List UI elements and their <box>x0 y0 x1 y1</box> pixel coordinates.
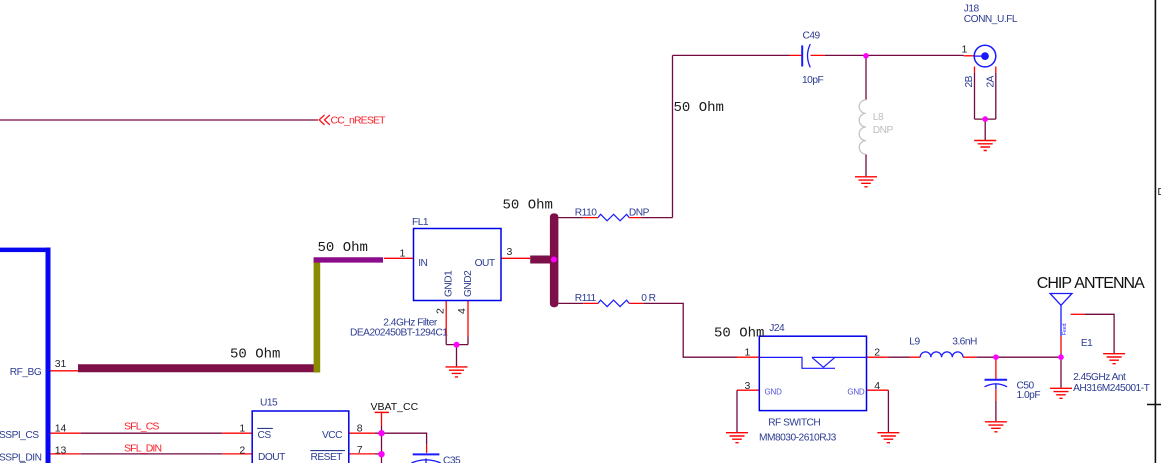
svg-text:IN: IN <box>418 258 427 269</box>
svg-text:50 Ohm: 50 Ohm <box>230 347 280 363</box>
svg-text:13: 13 <box>55 445 67 457</box>
svg-text:R110: R110 <box>575 208 597 219</box>
svg-text:GND: GND <box>765 387 783 396</box>
svg-text:CC_nRESET: CC_nRESET <box>331 115 387 127</box>
svg-text:1: 1 <box>962 44 968 56</box>
svg-text:SFL_DIN: SFL_DIN <box>124 443 161 455</box>
svg-text:2.45GHz Ant: 2.45GHz Ant <box>1073 372 1126 383</box>
svg-text:2A: 2A <box>986 75 997 87</box>
svg-text:1: 1 <box>400 247 406 259</box>
svg-text:CONN_U.FL: CONN_U.FL <box>964 14 1018 25</box>
svg-text:MM8030-2610RJ3: MM8030-2610RJ3 <box>759 433 837 444</box>
svg-text:C35: C35 <box>443 456 461 463</box>
svg-text:SSPI_DIN: SSPI_DIN <box>0 452 42 463</box>
svg-text:SSPI_CS: SSPI_CS <box>0 430 39 441</box>
svg-text:FL1: FL1 <box>412 217 429 228</box>
svg-text:GND2: GND2 <box>463 270 474 297</box>
svg-text:50 Ohm: 50 Ohm <box>318 240 368 256</box>
svg-text:2B: 2B <box>964 75 975 87</box>
svg-text:SFL_CS: SFL_CS <box>124 420 159 432</box>
svg-text:7: 7 <box>357 444 363 456</box>
svg-text:DNP: DNP <box>873 125 894 136</box>
svg-text:0 R: 0 R <box>641 293 655 304</box>
svg-text:4: 4 <box>874 380 880 392</box>
svg-text:14: 14 <box>55 422 67 434</box>
svg-text:L8: L8 <box>873 112 884 123</box>
svg-text:2: 2 <box>435 308 447 314</box>
svg-text:C49: C49 <box>803 31 821 42</box>
svg-text:2: 2 <box>874 346 880 358</box>
svg-text:J18: J18 <box>964 4 980 15</box>
svg-text:DOUT: DOUT <box>258 452 285 463</box>
svg-text:Feed: Feed <box>1062 323 1068 335</box>
svg-text:L9: L9 <box>909 337 920 348</box>
svg-text:GND: GND <box>847 387 865 396</box>
svg-text:GND1: GND1 <box>444 270 455 297</box>
svg-text:DNP: DNP <box>629 208 650 219</box>
svg-text:3.6nH: 3.6nH <box>952 337 977 348</box>
svg-text:RF_BG: RF_BG <box>10 367 42 378</box>
svg-text:50 Ohm: 50 Ohm <box>714 325 764 341</box>
svg-text:1: 1 <box>239 422 245 434</box>
svg-text:3: 3 <box>745 380 751 392</box>
svg-text:8: 8 <box>357 422 363 434</box>
svg-text:3: 3 <box>507 246 513 258</box>
svg-text:VBAT_CC: VBAT_CC <box>371 401 419 413</box>
svg-text:CS: CS <box>258 430 272 441</box>
svg-text:J24: J24 <box>769 323 785 334</box>
svg-text:RESET: RESET <box>311 452 343 463</box>
svg-text:D: D <box>1158 187 1161 198</box>
svg-text:50 Ohm: 50 Ohm <box>503 198 553 214</box>
svg-text:RF SWITCH: RF SWITCH <box>768 418 820 429</box>
svg-text:DEA202450BT-1294C1: DEA202450BT-1294C1 <box>350 328 448 339</box>
svg-text:OUT: OUT <box>475 258 495 269</box>
svg-text:U15: U15 <box>260 398 278 409</box>
svg-text:31: 31 <box>55 358 67 370</box>
svg-text:10pF: 10pF <box>802 75 823 86</box>
svg-text:E1: E1 <box>1081 338 1093 349</box>
svg-text:VCC: VCC <box>322 430 342 441</box>
svg-text:2: 2 <box>239 445 245 457</box>
svg-text:R111: R111 <box>575 293 597 304</box>
svg-text:1.0pF: 1.0pF <box>1017 390 1041 401</box>
svg-text:AH316M245001-T: AH316M245001-T <box>1073 383 1150 394</box>
svg-text:50 Ohm: 50 Ohm <box>674 100 724 116</box>
svg-text:4: 4 <box>456 308 468 314</box>
svg-text:CHIP ANTENNA: CHIP ANTENNA <box>1037 275 1145 292</box>
svg-text:1: 1 <box>745 346 751 358</box>
